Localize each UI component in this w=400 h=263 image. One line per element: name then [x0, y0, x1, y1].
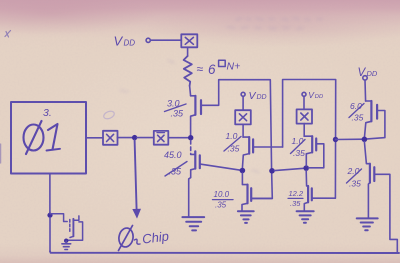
- svg-text:.35: .35: [293, 148, 305, 158]
- svg-text:V: V: [114, 34, 124, 49]
- label 45.0/.35: [164, 150, 187, 177]
- svg-text:.35: .35: [228, 144, 240, 154]
- pad X4: [235, 110, 251, 124]
- pad X3 (inverted Xbar): [154, 131, 169, 145]
- node VDD3 (stage 2 supply): [302, 90, 323, 100]
- transistor M1 3.0/.35: [191, 96, 201, 136]
- wire PHI1 box to pad X2: [86, 137, 103, 139]
- wire VDD3 to pad X5: [303, 96, 305, 109]
- pad X1 (bonding pad box): [181, 34, 197, 47]
- transistor M6 6.0/.35 load: [365, 101, 385, 139]
- ground G2: [182, 217, 204, 230]
- junction dot B: [269, 168, 275, 174]
- transistor M5 12.2/.35 driver: [304, 171, 335, 211]
- svg-text:1.0: 1.0: [226, 131, 238, 141]
- svg-text:Chip: Chip: [141, 228, 169, 246]
- node VDD4 (right supply): [358, 67, 378, 80]
- wire X4 to M3 drain: [242, 124, 244, 137]
- faint pencil O mark: [103, 110, 116, 120]
- junction dot A: [240, 168, 246, 174]
- wire M1 gate loop over to node B (rect1): [201, 80, 272, 199]
- arrow PHI2 chip output: [132, 140, 141, 218]
- transistor M8 10.0/.35 driver: [242, 173, 272, 211]
- wire X2 to junction: [118, 137, 133, 139]
- svg-text:.35: .35: [169, 167, 183, 177]
- svg-text:.35: .35: [349, 179, 361, 189]
- label PHI2 Chip: [117, 226, 140, 251]
- label 12.2/.35: [288, 189, 304, 208]
- svg-text:12.2: 12.2: [289, 189, 304, 198]
- svg-text:10.0: 10.0: [214, 190, 230, 199]
- transistor M2 45.0/.35 driver: [189, 140, 243, 216]
- svg-text:6.0: 6.0: [350, 101, 362, 111]
- junction dot J1: [132, 135, 137, 140]
- node VDD2 (stage 1 supply): [241, 90, 267, 102]
- svg-text:DD: DD: [257, 94, 267, 101]
- wire resistor to M1 drain: [190, 86, 191, 96]
- svg-text:≈: ≈: [197, 62, 204, 76]
- wire M3 gate loop rect2 over to 12.2 gate: [283, 80, 336, 199]
- node VDD (top supply terminal): [114, 34, 151, 49]
- svg-text:2.0: 2.0: [347, 166, 360, 176]
- label 2.0/.35: [347, 166, 362, 189]
- label PHI1: [24, 121, 61, 154]
- svg-text:.35: .35: [171, 109, 185, 119]
- svg-text:.35: .35: [352, 113, 364, 123]
- svg-text:45.0: 45.0: [164, 150, 182, 160]
- junction dot F: [47, 213, 52, 218]
- label 6.0/.35: [349, 101, 364, 123]
- svg-text:1.0: 1.0: [292, 136, 304, 146]
- transistor Q2 keeper: [50, 214, 83, 241]
- wire bottom bus: [50, 251, 399, 253]
- transistor M4 1.0/.35 load: [304, 136, 324, 168]
- svg-text:.35: .35: [215, 201, 227, 210]
- junction dot keeper: [64, 239, 68, 243]
- label 1.0/.35 M3: [224, 131, 241, 154]
- wire pad X1 to resistor: [187, 47, 189, 56]
- wire J1 to pad X3: [137, 137, 154, 139]
- svg-text:DD: DD: [315, 94, 323, 100]
- pad X5: [297, 109, 312, 123]
- scan edge artifact left: [0, 144, 2, 163]
- ground G4: [297, 211, 314, 223]
- svg-text:3.: 3.: [43, 107, 52, 119]
- junction dot C: [303, 165, 309, 171]
- svg-text:V: V: [249, 90, 257, 102]
- wire VDD2 to pad X4: [242, 96, 244, 110]
- wire X3 to junction J2: [168, 137, 188, 139]
- wire dot B to dot C: [275, 168, 304, 170]
- svg-text:6: 6: [208, 62, 216, 77]
- svg-text:V: V: [358, 67, 367, 79]
- transistor M7 2.0/.35 driver: [364, 142, 397, 253]
- wire X5 to M4 drain: [303, 124, 305, 137]
- label 10.0/.35: [213, 190, 234, 210]
- label 3.0/.35: [165, 99, 187, 119]
- svg-text:.35: .35: [290, 199, 301, 208]
- label 1.0/.35 M4: [291, 136, 306, 158]
- stray pen mark top left: [5, 31, 11, 38]
- wire VDD to pad X1: [150, 39, 181, 41]
- wire VDD4 to M6: [364, 80, 367, 101]
- transistor M3 1.0/.35 load: [242, 137, 282, 168]
- wire dot E to dot D: [336, 138, 365, 140]
- wire dot F down to bottom bus: [49, 217, 51, 251]
- svg-text:DD: DD: [367, 69, 378, 78]
- ground G3: [238, 211, 254, 223]
- junction dot J2: [188, 135, 193, 140]
- ground G5: [357, 218, 378, 230]
- svg-text:N+: N+: [227, 61, 241, 73]
- svg-text:DD: DD: [124, 39, 136, 48]
- block PHI1 clock box: [11, 102, 86, 174]
- junction dot D: [362, 137, 368, 143]
- label ~6sq N+ for R1: [197, 60, 241, 77]
- wire PHI1 box bottom down: [49, 174, 51, 213]
- resistor R1: [184, 56, 192, 86]
- junction dot E: [333, 137, 338, 142]
- ground G1 keeper: [62, 241, 71, 250]
- pad X2: [103, 131, 118, 145]
- faint ghost smudges top band: [120, 18, 322, 172]
